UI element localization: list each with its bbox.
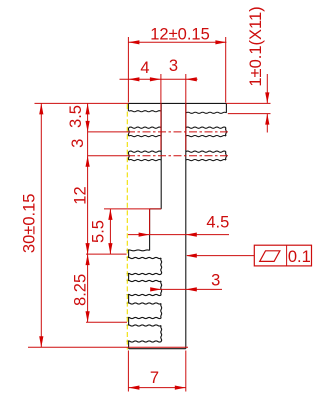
- yellow datum line: [126, 104, 128, 350]
- svg-text:3: 3: [211, 272, 220, 290]
- extension line x=186 top: [185, 74, 187, 150]
- groove 4 end closure: [160, 326, 163, 342]
- dim 8.25 line: [87, 254, 89, 322]
- svg-text:12±0.15: 12±0.15: [150, 26, 210, 44]
- dim 8.25 bottom extension: [86, 321, 127, 323]
- svg-text:7: 7: [150, 369, 159, 387]
- left fin row 2 tip closure: [127, 128, 130, 136]
- dim 3 line (bottom): [152, 288, 222, 290]
- dim 5.5 arrow down: [108, 243, 112, 254]
- right fin row 3 top edge (wavy): [186, 151, 226, 152]
- flatness frame box: [254, 245, 311, 266]
- dim 7 extension right: [185, 351, 187, 392]
- dim 1±0.1 line lower: [266, 114, 268, 133]
- top fin underside left (wavy): [129, 111, 161, 112]
- left fin row 3 tip closure: [127, 152, 130, 160]
- svg-text:30±0.15: 30±0.15: [21, 194, 39, 254]
- groove 2 bottom edge (wavy): [127, 294, 161, 295]
- dim 12±0.15 extension left: [127, 37, 129, 103]
- part top-right corner edge: [225, 103, 227, 112]
- svg-text:3: 3: [169, 57, 178, 75]
- groove 1 bottom edge (wavy): [127, 273, 161, 274]
- svg-text:3.5: 3.5: [67, 105, 85, 128]
- chain arrow down at 254.1: [86, 243, 90, 254]
- dim 12±0.15 arrow right: [215, 40, 226, 44]
- chain dim line x=87.6: [87, 103, 89, 254]
- dim 3 arrow right (bottom): [150, 287, 161, 291]
- dim 3 arrow left (bottom): [186, 287, 197, 291]
- chain arrow down at 131.9: [86, 121, 90, 132]
- left fin row 2 bottom edge (wavy): [129, 136, 161, 137]
- fin underside extension right: [228, 113, 271, 115]
- dim 12±0.15 extension right: [225, 37, 227, 103]
- groove 3 bottom edge (wavy): [127, 317, 161, 318]
- left fin row 3 bottom edge (wavy): [129, 160, 161, 161]
- dim 4 arrow right: [150, 77, 161, 81]
- chain arrow up at 103.4: [86, 103, 90, 114]
- svg-text:5.5: 5.5: [90, 220, 108, 243]
- spine left edge: [160, 103, 162, 208]
- groove 4 top edge (wavy): [127, 325, 161, 326]
- part top edge: [128, 102, 226, 104]
- dim 1±0.1 arrow down: [265, 92, 269, 103]
- lower-left face segment below groove 4: [128, 342, 130, 349]
- svg-text:12: 12: [72, 186, 90, 204]
- dim 30±0.15 arrow top: [39, 103, 43, 114]
- lower-left face segment above groove 1: [128, 250, 130, 258]
- extension line x=161 top: [160, 74, 162, 150]
- fin row2 centerline: [88, 131, 127, 133]
- groove 2 end closure: [160, 281, 163, 295]
- dim 12±0.15 arrow left: [128, 40, 139, 44]
- right fin row 2 top edge (wavy): [186, 127, 226, 128]
- groove 3 end closure: [160, 304, 163, 319]
- svg-text:0.1: 0.1: [288, 248, 311, 266]
- lower-left face segment above groove 3: [128, 295, 130, 304]
- left edge mid section: [149, 209, 151, 251]
- lower-left face segment above groove 2: [128, 274, 130, 281]
- dim 8.25 arrow down: [86, 311, 90, 322]
- flatness leader arrow: [186, 254, 197, 258]
- left fin row 3 top edge (wavy): [129, 151, 161, 152]
- groove 1 end closure: [160, 258, 163, 274]
- fin row3 centerline: [88, 155, 127, 157]
- chain arrow up at 155.8: [86, 156, 90, 167]
- svg-text:8.25: 8.25: [71, 274, 89, 306]
- dim 5.5 top extension: [104, 208, 161, 210]
- top fin underside right (wavy): [186, 112, 226, 113]
- flatness symbol (parallelogram): [260, 251, 280, 262]
- part bottom edge: [129, 348, 186, 350]
- step to lower block: [127, 249, 150, 252]
- dim 1±0.1 arrow up: [265, 114, 269, 125]
- svg-text:4: 4: [140, 59, 149, 77]
- part top-left corner edge: [127, 103, 129, 111]
- dim 4/3 line: [120, 78, 198, 80]
- flatness leader: [187, 255, 254, 257]
- groove 3 top edge (wavy): [127, 303, 161, 304]
- dim 4.5 arrow left: [186, 233, 197, 237]
- dim 7 line: [128, 387, 185, 389]
- dim 4 arrow left: [128, 77, 139, 81]
- dim 8.25 arrow up: [86, 254, 90, 265]
- dim 7 arrow left: [128, 386, 139, 390]
- dim 7 arrow right: [175, 386, 186, 390]
- dim 3 arrow right outside: [186, 77, 197, 81]
- dim 5.5 line: [109, 209, 111, 254]
- groove 4 bottom edge (wavy): [127, 341, 161, 342]
- right fin row 3 tip closure: [225, 152, 228, 160]
- svg-text:3: 3: [69, 139, 87, 148]
- dim 7 extension left: [127, 351, 129, 392]
- dim 12±0.15 line: [128, 41, 226, 43]
- step at spine bottom: [150, 208, 162, 210]
- top edge extension to right: [35, 102, 271, 104]
- dim 4.5 arrow right: [139, 233, 150, 237]
- left fin row 2 top edge (wavy): [129, 127, 161, 128]
- dim 30±0.15 line: [40, 103, 42, 347]
- lower-left face segment above groove 4: [128, 318, 130, 326]
- svg-text:1±0.1(X11): 1±0.1(X11): [247, 6, 265, 86]
- groove 2 top edge (wavy): [127, 280, 161, 281]
- right fin row 3 bottom edge (wavy): [186, 160, 226, 161]
- dim 4.5 line: [128, 234, 229, 236]
- svg-text:4.5: 4.5: [206, 214, 229, 232]
- dim 1±0.1 line upper: [266, 74, 268, 103]
- dim 30±0.15 arrow bottom: [39, 336, 43, 347]
- extension overlap x=149.6: [149, 209, 151, 235]
- dim 30±0.15 bottom extension: [28, 346, 188, 348]
- dim 5.5 arrow up: [108, 209, 112, 220]
- right face full height: [185, 103, 187, 348]
- boundary extension y=254: [86, 253, 127, 255]
- right fin row 2 bottom edge (wavy): [186, 136, 226, 137]
- right fin row 2 tip closure: [225, 128, 228, 136]
- groove 1 top edge (wavy): [127, 257, 161, 258]
